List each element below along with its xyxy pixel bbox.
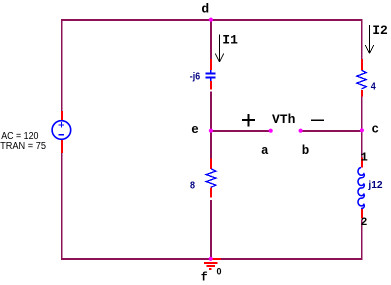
svg-text:j12: j12 xyxy=(367,180,383,191)
wire middle branch: capacitor to node e and down to resistor 8 xyxy=(210,92,212,159)
resistor R2 pin leads (value 8) xyxy=(210,159,212,169)
svg-text:1: 1 xyxy=(361,150,368,164)
wire middle branch upper: node d down to capacitor xyxy=(210,20,212,59)
svg-text:I2: I2 xyxy=(372,23,388,38)
ground symbol 0 at node f xyxy=(211,258,221,260)
current arrow I2 xyxy=(369,25,371,53)
svg-text:0: 0 xyxy=(217,267,222,277)
svg-text:TRAN = 75: TRAN = 75 xyxy=(0,141,46,152)
svg-text:e: e xyxy=(191,123,199,137)
svg-text:VTh: VTh xyxy=(272,112,296,127)
svg-text:-j6: -j6 xyxy=(190,72,201,83)
wire right rail upper xyxy=(361,19,363,59)
resistor R1 pin leads (value 4) xyxy=(361,59,363,70)
resistor R1 zigzag symbol xyxy=(357,70,366,89)
svg-text:b: b xyxy=(302,144,310,158)
voltage source V1 plus mark xyxy=(59,124,65,126)
VTh plus sign xyxy=(242,119,255,121)
wire right branch: below resistor 4 through node c to inductor pin 1 xyxy=(361,97,363,158)
svg-text:4: 4 xyxy=(371,81,376,93)
svg-text:I1: I1 xyxy=(222,33,238,48)
node b dot xyxy=(299,129,303,133)
node d junction dot xyxy=(209,18,213,22)
wire e to a xyxy=(211,130,271,132)
wire left rail lower xyxy=(61,153,63,258)
svg-text:2: 2 xyxy=(361,217,368,229)
node f junction dot xyxy=(209,257,213,261)
wire left rail upper xyxy=(61,19,63,111)
voltage source V1 minus mark xyxy=(59,134,65,136)
svg-text:c: c xyxy=(372,123,380,137)
wire top: d rail from top-left corner to top-right corner xyxy=(61,19,362,21)
wire bottom: from bottom-left corner to bottom-right corner xyxy=(61,258,362,260)
svg-text:a: a xyxy=(261,144,269,158)
current arrow I1 xyxy=(219,35,221,62)
capacitor C1 pin leads xyxy=(210,59,212,70)
wire b to c xyxy=(301,130,362,132)
node c junction dot xyxy=(360,128,364,132)
svg-text:d: d xyxy=(201,1,209,16)
VTh minus sign xyxy=(311,119,324,121)
node e junction dot xyxy=(209,129,213,133)
node a dot xyxy=(269,129,273,133)
voltage source V1 pin leads xyxy=(61,111,63,121)
inductor L1 coil symbol xyxy=(358,168,364,209)
svg-text:f: f xyxy=(201,272,208,285)
inductor L1 pin leads (value j12) xyxy=(361,158,363,168)
resistor R2 zigzag symbol xyxy=(206,169,216,188)
voltage source V1 circle xyxy=(52,121,71,140)
wire right rail lower xyxy=(361,220,363,259)
capacitor C1 symbol xyxy=(210,70,212,73)
wire middle branch lower: below resistor 8 to ground node f xyxy=(210,200,212,259)
svg-text:8: 8 xyxy=(190,181,195,192)
